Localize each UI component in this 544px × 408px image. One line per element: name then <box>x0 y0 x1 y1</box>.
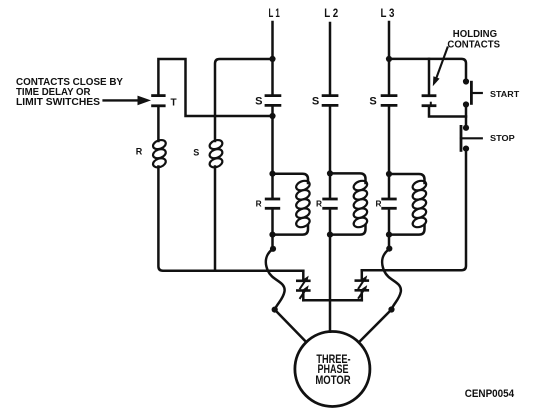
svg-text:S: S <box>312 95 319 107</box>
annotation arrow to holding contact <box>433 48 448 87</box>
label three-phase motor <box>315 352 351 387</box>
node branch2 bottom <box>327 232 333 238</box>
node motor lead left <box>272 307 278 313</box>
svg-text:START: START <box>490 89 520 99</box>
svg-text:S: S <box>369 95 376 107</box>
svg-text:R: R <box>316 198 322 208</box>
wire L1 feeder top <box>271 22 274 95</box>
wire S-curve left (branch1 to motor lead) <box>266 249 285 310</box>
node start top <box>463 78 469 84</box>
svg-text:L 1: L 1 <box>269 6 281 20</box>
annotation arrow to contact T <box>104 96 151 106</box>
branch 3 vertical with contact R <box>388 174 391 198</box>
wire coil R to bottom rail <box>158 167 303 271</box>
wire coil S to bottom rail <box>214 167 217 271</box>
node branch3 motor tap <box>386 246 392 252</box>
node branch2 top <box>327 170 333 176</box>
annotation text: contacts close by time delay or limit switches <box>16 77 124 108</box>
svg-text:STOP: STOP <box>490 133 515 143</box>
wire stop down to right rail <box>362 149 466 271</box>
annotation text: holding contacts <box>447 29 500 51</box>
node L1/T-branch junction <box>269 113 275 119</box>
node branch1 top <box>269 171 275 177</box>
contact S on L1 <box>266 96 280 106</box>
svg-text:MOTOR: MOTOR <box>315 373 351 387</box>
motor M1 (three-phase motor) <box>295 332 370 407</box>
svg-text:R: R <box>136 146 143 156</box>
svg-text:L 2: L 2 <box>324 6 338 20</box>
node branch1 bottom <box>269 232 275 238</box>
wire L3 below S contact <box>388 105 391 174</box>
wire holding contact lower to chain <box>429 106 466 117</box>
pushbutton START (normally open) <box>471 82 481 103</box>
svg-text:R: R <box>256 198 262 208</box>
wire L3 node to start/stop chain <box>389 59 466 81</box>
wire L1 below S contact <box>271 105 274 173</box>
overload element left (arrow contact) <box>297 271 309 301</box>
pushbutton STOP (normally closed) <box>461 126 482 150</box>
holding contact (normally open) <box>423 96 435 106</box>
node branch3 top <box>386 171 392 177</box>
wire branch 1 lower <box>271 208 274 249</box>
svg-text:CENP0054: CENP0054 <box>465 388 515 400</box>
svg-text:T: T <box>171 98 177 109</box>
node start bottom <box>463 101 469 107</box>
wire motor lead left diagonal <box>275 310 307 343</box>
contact R (branch 2) <box>324 199 337 208</box>
svg-text:R: R <box>376 198 382 208</box>
svg-text:CONTACTS: CONTACTS <box>447 40 500 51</box>
node branch3 bottom <box>386 232 392 238</box>
contact S on L2 <box>323 96 337 106</box>
node branch1 motor tap <box>270 246 276 252</box>
svg-text:S: S <box>193 147 199 157</box>
coil (branch 1, parallel with R contact) <box>273 174 311 235</box>
wire holding contact branch upper <box>428 59 431 94</box>
wire L2 below S contact <box>329 105 332 173</box>
wire L3 feeder top <box>388 22 391 95</box>
wire branch 3 lower <box>388 208 391 248</box>
node L3/control junction <box>386 56 392 62</box>
svg-text:L 3: L 3 <box>381 6 395 20</box>
node stop top <box>463 125 469 131</box>
wire S coil branch from L1 node down <box>215 59 273 141</box>
wire bottom link between overloads <box>303 299 362 302</box>
branch 2 vertical with contact R <box>329 173 332 197</box>
contact S on L3 <box>382 96 396 106</box>
coil R (left) <box>152 138 167 169</box>
wire S-curve right (branch3 to motor lead) <box>382 249 401 310</box>
node motor lead right <box>388 306 394 312</box>
wire motor lead right diagonal <box>359 310 392 343</box>
wire from T contact top to L1 (up-over-down hook) <box>158 59 272 116</box>
coil (branch 3, parallel with R contact) <box>389 174 427 235</box>
svg-text:LIMIT SWITCHES: LIMIT SWITCHES <box>16 97 101 108</box>
branch 1 vertical with contact R <box>271 174 274 198</box>
svg-text:S: S <box>255 95 262 107</box>
svg-text:HOLDING: HOLDING <box>453 29 497 40</box>
wire L2 feeder top <box>329 23 332 95</box>
wire between start and stop <box>465 105 468 128</box>
contact R (branch 3) <box>383 199 396 208</box>
overload element right (arrow contact) <box>356 270 368 300</box>
contact R (branch 1) <box>266 199 279 208</box>
node stop bottom <box>463 146 469 152</box>
holding contact tick <box>430 103 432 106</box>
node L1/S-coil junction <box>269 56 275 62</box>
wire T contact to coil R <box>157 106 160 141</box>
wire branch 2 lower to motor <box>329 208 332 331</box>
contact T (time delay) <box>153 96 165 106</box>
coil S (left) <box>208 138 223 169</box>
coil (branch 2, parallel with R contact) <box>330 173 368 234</box>
